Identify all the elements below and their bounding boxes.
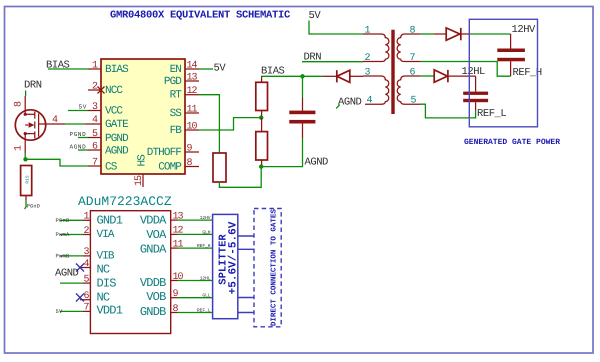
svg-text:GND1: GND1 — [97, 214, 123, 228]
svg-text:VOB: VOB — [146, 290, 166, 304]
U1 pin 4 GATE — [85, 115, 129, 131]
wire xfmr pin6 to D3 — [421, 75, 434, 77]
wire splitter to gates row1 — [238, 235, 254, 237]
U2 pin 12 VOA — [146, 226, 212, 243]
U2 pin 6 NC with X — [76, 291, 110, 305]
svg-text:COMP: COMP — [158, 162, 182, 174]
U2 pin 5 DIS — [60, 274, 116, 290]
wire U1 pin12 RT down to R2 — [199, 95, 219, 153]
U1 pin 1 BIAS — [88, 60, 129, 76]
svg-text:PGnD: PGnD — [56, 217, 71, 224]
wire drain stub — [25, 91, 27, 97]
svg-text:AGND: AGND — [55, 268, 79, 280]
U1 pin 14 EN — [170, 60, 199, 76]
svg-text:12HL: 12HL — [462, 66, 486, 78]
U2 pin 2 VIA — [56, 226, 115, 241]
svg-text:NCC: NCC — [105, 85, 123, 97]
svg-text:REF_L: REF_L — [197, 308, 211, 313]
svg-text:1: 1 — [365, 25, 371, 36]
wire xfmr pin8 to D2 — [421, 33, 434, 35]
svg-text:12HV: 12HV — [512, 24, 537, 36]
wire D2 cathode to C2 — [470, 33, 511, 35]
svg-text:EN: EN — [170, 64, 182, 76]
T1 secondary winding pins 6-5 — [397, 67, 420, 106]
wire U1 pin10 FB to divider midpoint — [199, 118, 261, 130]
svg-text:HS: HS — [137, 154, 149, 167]
wire REF_H: xfmr pin7 to C2 bottom — [421, 62, 511, 77]
U1 pin 6 AGND — [88, 141, 129, 157]
wire splitter to gates row2 — [238, 248, 254, 250]
svg-text:PwmA: PwmA — [56, 231, 71, 238]
U1 pin 3 VCC — [88, 102, 123, 118]
resistor R2 (RT) — [213, 153, 226, 182]
U2 pin 7 VDD1 — [56, 303, 123, 318]
svg-text:5V: 5V — [56, 308, 64, 315]
U1 pin 8 COMP — [158, 158, 199, 174]
svg-text:CS: CS — [105, 161, 118, 173]
svg-text:PGND: PGND — [105, 133, 129, 145]
wire pin3 — [68, 110, 88, 112]
T1 secondary winding pins 8-7 — [397, 25, 421, 64]
svg-text:GLL: GLL — [202, 293, 210, 299]
direct connection dashed box — [254, 209, 281, 327]
svg-text:+5.6V/-5.6V: +5.6V/-5.6V — [228, 221, 240, 294]
wire BIAS to pin1 — [48, 68, 88, 70]
svg-text:VDDB: VDDB — [140, 276, 166, 290]
svg-text:VDD1: VDD1 — [97, 304, 123, 318]
U1 pin 2 NCC no-connect X — [88, 81, 123, 97]
wire splitter to gates row4 — [238, 312, 254, 314]
svg-text:6: 6 — [410, 67, 416, 78]
wire source down — [24, 153, 26, 159]
svg-text:12: 12 — [173, 226, 184, 237]
svg-text:PGND: PGND — [70, 131, 87, 138]
svg-text:VCC: VCC — [105, 106, 123, 118]
capacitor C2 (12HV) — [497, 34, 525, 76]
U1 pin 13 PGD — [164, 72, 199, 88]
svg-text:GNDA: GNDA — [140, 242, 167, 256]
wire DRN to xfmr pin2 — [302, 61, 363, 63]
svg-text:DTHOFF: DTHOFF — [147, 147, 182, 159]
svg-text:NC: NC — [97, 291, 110, 305]
svg-text:3: 3 — [365, 67, 371, 78]
svg-text:DRN: DRN — [24, 80, 42, 92]
node AGND junction — [259, 164, 263, 168]
U2 pin 4 NC with X — [76, 259, 110, 277]
wire 5V to xfmr pin1 — [309, 21, 363, 35]
svg-text:GNDB: GNDB — [140, 305, 166, 319]
svg-text:DIRECT CONNECTION TO GATES: DIRECT CONNECTION TO GATES — [270, 209, 279, 327]
generated gate power box — [469, 19, 537, 127]
splitter box — [213, 214, 238, 318]
wire AGND stub — [336, 105, 340, 109]
svg-text:VIA: VIA — [97, 229, 115, 241]
T1 primary winding pins 1-2 — [363, 25, 389, 64]
svg-text:AGND: AGND — [305, 156, 329, 168]
svg-text:15: 15 — [134, 175, 145, 186]
resistor R3 divider top — [256, 76, 268, 117]
svg-text:4: 4 — [367, 95, 373, 106]
capacitor C1 (BIAS) — [289, 76, 315, 138]
svg-text:SS: SS — [170, 108, 183, 120]
svg-text:5: 5 — [411, 95, 417, 106]
svg-text:VOA: VOA — [146, 228, 167, 242]
svg-text:5V: 5V — [79, 104, 87, 111]
wire gate to U1 — [65, 123, 85, 125]
svg-text:VIB: VIB — [97, 251, 115, 263]
svg-text:VDDA: VDDA — [140, 213, 167, 227]
U1 pin 11 SS — [170, 104, 199, 120]
svg-text:AGND: AGND — [338, 96, 362, 108]
svg-text:AGND: AGND — [70, 143, 87, 150]
wire pin6 — [78, 149, 88, 151]
svg-text:13: 13 — [187, 72, 198, 83]
wire U1 pin14 to 5V — [199, 68, 213, 70]
transistor Q1 MOSFET — [15, 96, 65, 153]
svg-text:BIAS: BIAS — [105, 64, 129, 76]
svg-text:GATE: GATE — [105, 119, 129, 131]
U1 pin 9 DTHOFF — [147, 143, 199, 159]
svg-text:REF_L: REF_L — [477, 108, 506, 120]
U2 pin 1 GND1 — [56, 212, 123, 228]
svg-text:PwmB: PwmB — [56, 252, 71, 259]
svg-text:GENERATED GATE POWER: GENERATED GATE POWER — [464, 138, 560, 147]
capacitor C3 (12HL) — [463, 76, 488, 111]
T1 primary winding pins 3-4 — [363, 67, 389, 106]
diode D2 (12HV rectifier) — [434, 28, 470, 40]
svg-text:10: 10 — [187, 121, 198, 132]
U1 pin 15 bottom stub — [134, 174, 145, 187]
node FB junction — [259, 115, 263, 119]
resistor R1 below Q1 — [21, 166, 32, 201]
svg-text:2: 2 — [365, 53, 371, 64]
svg-text:R1S: R1S — [25, 175, 31, 183]
wire REF_L: C3 bottom to xfmr pin5 — [421, 104, 476, 118]
U1 pin 10 FB — [170, 121, 199, 137]
U1 pin 5 PGND — [88, 129, 129, 145]
svg-text:PGD: PGD — [164, 76, 182, 88]
U2 body — [90, 211, 170, 334]
diode D3 (12HL rectifier) — [434, 70, 476, 82]
wire BIAS rail — [261, 75, 323, 77]
wire pin5 — [78, 137, 88, 139]
svg-text:PGnD: PGnD — [27, 204, 40, 210]
svg-text:NC: NC — [97, 263, 110, 277]
svg-text:GLH: GLH — [202, 229, 210, 235]
svg-text:GMR04800X EQUIVALENT SCHEMATIC: GMR04800X EQUIVALENT SCHEMATIC — [110, 10, 291, 22]
transformer T1 core — [391, 30, 394, 114]
svg-text:12: 12 — [187, 86, 198, 97]
svg-text:RT: RT — [170, 90, 183, 102]
U2 pin 9 VOB — [146, 289, 212, 304]
node BIAS junction at C1 — [300, 74, 304, 78]
svg-text:12HV: 12HV — [200, 215, 211, 221]
wire C1 bottom to AGND rail — [261, 138, 302, 167]
U2 pin 13 VDDA — [140, 211, 213, 227]
svg-text:8: 8 — [410, 25, 416, 36]
node junction below Q1 — [23, 157, 27, 161]
resistor R4 divider bottom — [256, 118, 268, 167]
svg-text:14: 14 — [187, 60, 198, 71]
wire R2 bottom to AGND rail — [219, 167, 261, 188]
U2 pin 8 GNDB — [140, 304, 213, 319]
svg-text:11: 11 — [173, 239, 184, 250]
svg-text:5V: 5V — [309, 10, 322, 22]
svg-text:REF_H: REF_H — [197, 244, 211, 249]
U2 pin 11 GNDA — [140, 239, 213, 256]
svg-text:13: 13 — [173, 211, 184, 222]
svg-text:ADuM7223ACCZ: ADuM7223ACCZ — [78, 194, 172, 209]
ground flag PGnD below R1 — [25, 200, 40, 210]
svg-text:12HL: 12HL — [200, 275, 211, 281]
U2 pin 10 VDDB — [140, 272, 213, 290]
svg-text:5V: 5V — [214, 63, 227, 75]
svg-text:DIS: DIS — [97, 277, 117, 291]
U1 pin 7 CS — [88, 157, 118, 173]
svg-text:AGND: AGND — [105, 145, 129, 157]
svg-text:11: 11 — [187, 104, 198, 115]
diode D1 (BIAS to xfmr pin3) — [323, 70, 363, 82]
svg-text:10: 10 — [173, 272, 184, 283]
op-amp U1 controller body — [101, 59, 185, 174]
svg-text:7: 7 — [410, 53, 416, 64]
U1 pin 12 RT — [170, 86, 199, 102]
wire junction to CS pin 7 — [26, 159, 89, 166]
svg-text:FB: FB — [170, 125, 183, 137]
wire splitter to gates row3 — [238, 297, 254, 299]
U2 pin 3 VIB — [56, 247, 115, 262]
